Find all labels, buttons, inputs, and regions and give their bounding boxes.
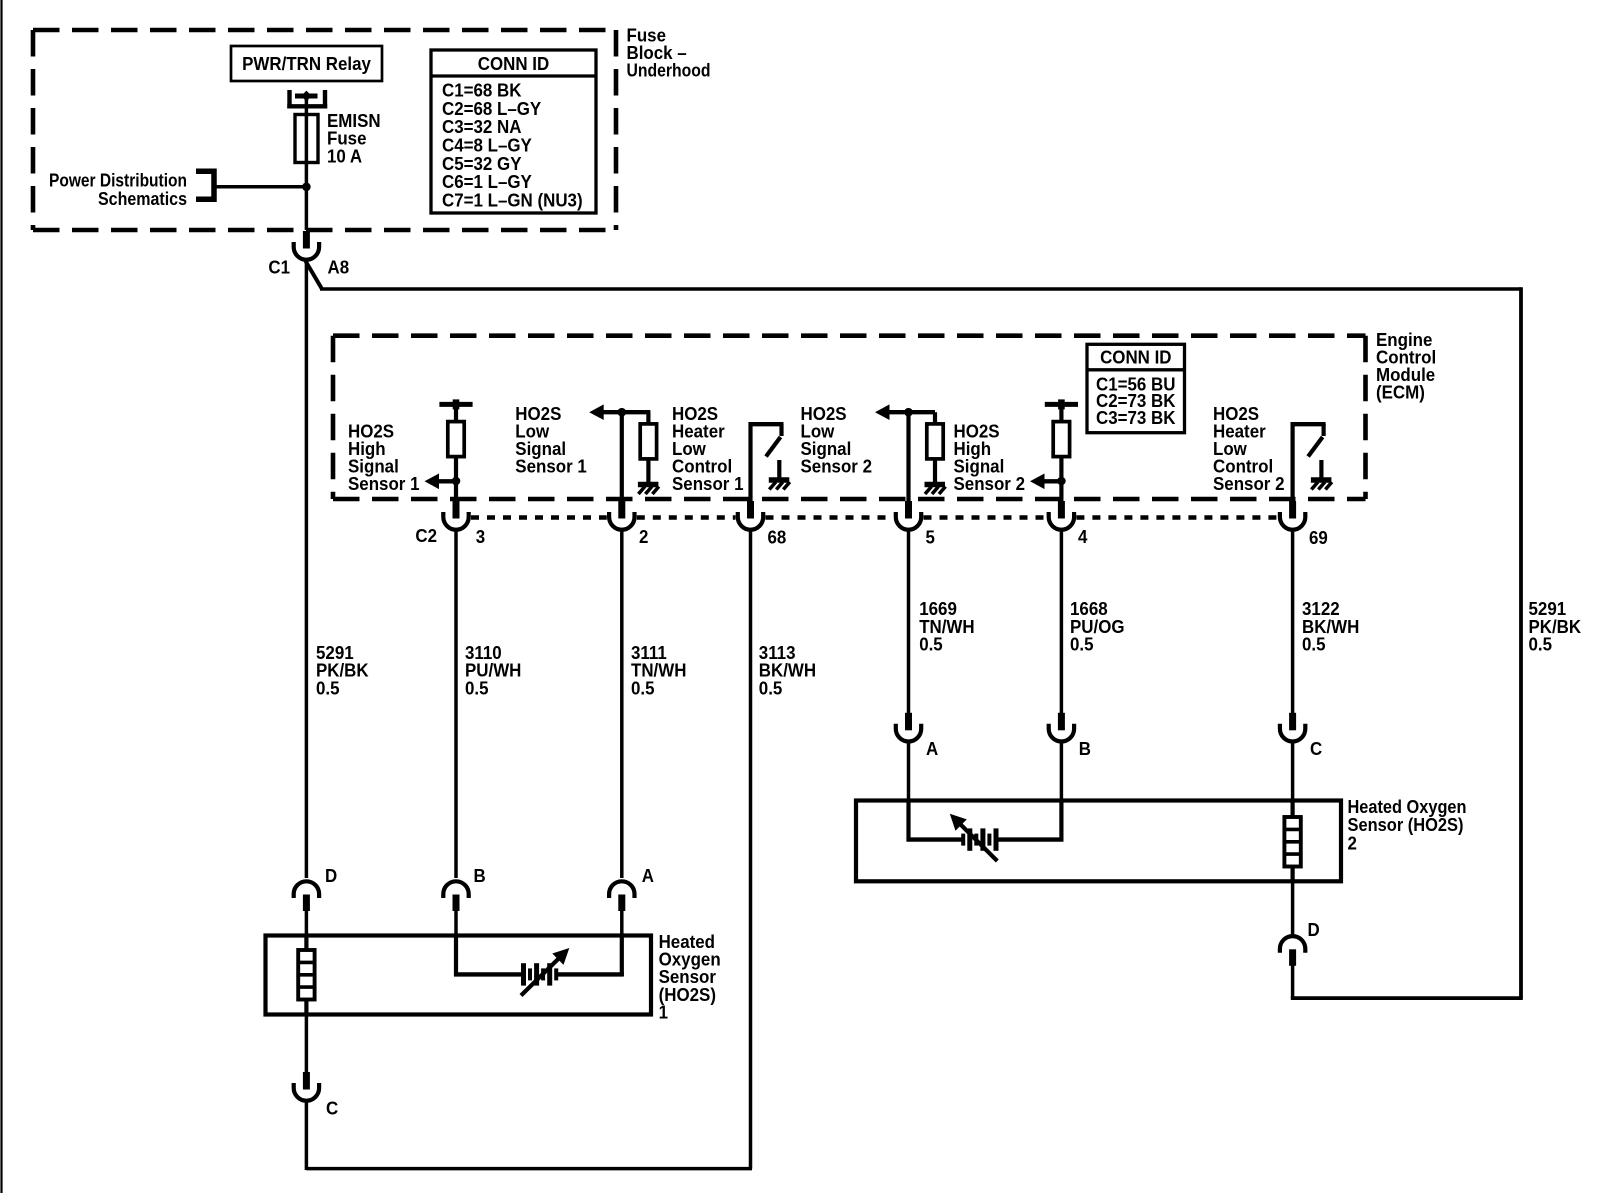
svg-text:Schematics: Schematics (98, 189, 187, 209)
relay contact symbol (287, 90, 327, 109)
arrow to HO2S Low Signal Sensor 2 label (875, 404, 935, 420)
ECM pin 4 connector (1049, 501, 1074, 530)
fuse block - underhood dashed box (33, 30, 616, 230)
sensor cell (HO2S2) (907, 802, 1064, 842)
svg-text:5: 5 (926, 527, 935, 547)
ECM pin 68 connector (738, 501, 763, 530)
internal connection T-bar (circuit 1) (439, 399, 472, 409)
ground stem (circuit 6) (1319, 460, 1323, 478)
wire corner down to resistor (circuit 4) (933, 412, 937, 424)
heater element (HO2S2) (1290, 802, 1294, 817)
ECM pin 5 connector (896, 501, 921, 530)
svg-text:C4=8 L–GY: C4=8 L–GY (442, 136, 532, 156)
svg-text:C6=1 L–GY: C6=1 L–GY (442, 172, 532, 192)
svg-text:C2: C2 (415, 526, 437, 546)
svg-text:Sensor 2: Sensor 2 (1213, 474, 1285, 494)
svg-text:10 A: 10 A (327, 146, 362, 166)
wire 3110 PU/WH (pin 3 to HO2S1 B) (454, 531, 458, 879)
wire switch to pin 68 (748, 422, 752, 503)
svg-text:Sensor 1: Sensor 1 (515, 457, 587, 477)
svg-text:0.5: 0.5 (1529, 635, 1553, 655)
wire resistor to ground (circuit 4) (933, 459, 937, 482)
heated oxygen sensor HO2S 1 box (266, 936, 652, 1015)
ground stem (circuit 3) (777, 460, 781, 478)
wire resistor to ground (circuit 2) (646, 459, 650, 482)
sensor variable arrow (HO2S1) (521, 948, 569, 996)
fuse EMISN 10A (295, 115, 318, 163)
junction node circuit 2 (618, 408, 627, 417)
wire relay to fuse (305, 96, 309, 116)
wire HO2S1 heater to pin C (305, 1015, 309, 1073)
connector pin D (HO2S2) (1280, 936, 1305, 966)
wire 1668 PU/OG (pin 4 to HO2S2 B) (1060, 531, 1064, 714)
connector pin A (HO2S1) (609, 881, 634, 911)
connector pin D (HO2S1) (294, 881, 319, 911)
wire D to 5291 right (1291, 965, 1523, 998)
junction node circuit 1 (452, 477, 461, 486)
arrow to HO2S Low Signal Sensor 1 label (589, 404, 650, 420)
arrow to HO2S High Signal Sensor 2 label (1030, 474, 1061, 490)
internal connection T-bar (circuit 5) (1045, 399, 1078, 409)
wire C into HO2S2 (1291, 742, 1295, 803)
engine control module dashed box (333, 336, 1366, 499)
resistor (HO2S low signal) (640, 424, 656, 459)
wire junction to pin 3 (454, 481, 458, 503)
svg-text:4: 4 (1078, 527, 1087, 547)
ECM pin 3 connector (443, 501, 468, 530)
svg-text:0.5: 0.5 (631, 678, 655, 698)
junction node circuit 4 (904, 408, 913, 417)
wire 3111 TN/WH (pin 2 to HO2S1 A) (620, 531, 624, 879)
svg-text:2: 2 (639, 527, 648, 547)
svg-text:D: D (1308, 920, 1320, 940)
svg-text:CONN ID: CONN ID (1100, 348, 1171, 368)
wire 5291 PK/BK left vertical (305, 260, 309, 878)
svg-text:0.5: 0.5 (759, 678, 783, 698)
wire resistor to junction (454, 457, 458, 482)
svg-text:C1: C1 (268, 258, 290, 278)
svg-text:Sensor 2: Sensor 2 (801, 457, 873, 477)
svg-text:Underhood: Underhood (627, 61, 711, 81)
arrow to HO2S High Signal Sensor 1 label (425, 474, 457, 490)
svg-text:C: C (1310, 739, 1322, 759)
connector pin A (HO2S2) (896, 713, 921, 742)
svg-text:A: A (642, 866, 654, 886)
svg-text:0.5: 0.5 (1070, 635, 1094, 655)
ECM pin 69 connector (1280, 501, 1305, 530)
svg-text:0.5: 0.5 (465, 678, 489, 698)
svg-text:0.5: 0.5 (1302, 635, 1326, 655)
connector pin B (HO2S2) (1049, 713, 1074, 742)
svg-text:Sensor 2: Sensor 2 (954, 474, 1026, 494)
svg-text:68: 68 (768, 527, 787, 547)
ground (circuit 6) (1311, 480, 1332, 490)
resistor (HO2S low signal 2) (927, 424, 943, 459)
svg-text:C3=73 BK: C3=73 BK (1096, 408, 1176, 428)
svg-text:0.5: 0.5 (316, 678, 340, 698)
wire A into HO2S2 (907, 742, 911, 803)
connector pin B (HO2S1) (443, 881, 468, 911)
svg-text:Sensor 1: Sensor 1 (672, 474, 744, 494)
svg-text:CONN ID: CONN ID (478, 54, 549, 74)
svg-text:B: B (1079, 739, 1091, 759)
power distribution bracket symbol (196, 169, 214, 203)
connector pin C (HO2S2) (1280, 713, 1305, 742)
resistor (HO2S high signal pull) (448, 422, 464, 457)
connector pin C (HO2S1) (294, 1072, 319, 1101)
driver switch (heater low control 1) (749, 424, 784, 457)
wire resistor to junction (circuit 5) (1059, 457, 1063, 482)
wire junction to pin 4 (1059, 481, 1063, 503)
wire T-bar to resistor (454, 407, 458, 422)
svg-text:Power Distribution: Power Distribution (49, 171, 187, 191)
svg-text:Sensor (HO2S): Sensor (HO2S) (1348, 815, 1464, 835)
heated oxygen sensor HO2S 2 box (856, 801, 1341, 882)
svg-text:(ECM): (ECM) (1376, 383, 1425, 403)
svg-text:PWR/TRN Relay: PWR/TRN Relay (242, 54, 371, 74)
ECM pin 2 connector (609, 501, 634, 530)
svg-text:0.5: 0.5 (919, 635, 943, 655)
wire T-bar to resistor (circuit 5) (1059, 407, 1063, 422)
ground (circuit 2) (638, 485, 659, 495)
wire 3113 BK/WH (pin 68 to HO2S1 C) (306, 531, 752, 1171)
wire junction to pin 2 (620, 412, 624, 503)
wire fuse to connector C1 (305, 163, 309, 231)
wire HO2S2 heater to pin D (1291, 881, 1295, 883)
svg-text:C7=1 L–GN (NU3): C7=1 L–GN (NU3) (442, 191, 583, 211)
svg-text:Heated Oxygen: Heated Oxygen (1348, 797, 1467, 817)
heater element (HO2S1) (304, 937, 308, 950)
svg-text:A8: A8 (328, 258, 350, 278)
svg-text:D: D (325, 866, 337, 886)
svg-text:2: 2 (1348, 833, 1357, 853)
wire B into HO2S1 (454, 910, 458, 937)
sensor variable arrow (HO2S2) (950, 814, 998, 861)
ground (circuit 4) (925, 485, 946, 495)
connector C1 pin A8 (294, 231, 319, 260)
wire 1669 TN/WH (pin 5 to HO2S2 A) (907, 531, 911, 714)
svg-text:1: 1 (659, 1003, 668, 1023)
relay PWR/TRN Relay name box (231, 46, 382, 81)
wire power distribution tap (216, 185, 306, 189)
svg-text:Sensor 1: Sensor 1 (348, 474, 420, 494)
svg-text:A: A (926, 739, 938, 759)
wire A into HO2S1 (620, 910, 624, 937)
svg-text:C5=32 GY: C5=32 GY (442, 154, 522, 174)
svg-text:69: 69 (1309, 528, 1328, 548)
resistor (HO2S high signal 2) (1053, 422, 1069, 457)
svg-text:C1=68 BK: C1=68 BK (442, 80, 522, 100)
sensor cell (HO2S1) (454, 937, 624, 976)
wire B into HO2S2 (1060, 742, 1064, 803)
svg-text:3: 3 (476, 527, 485, 547)
driver switch (heater low control 2) (1291, 424, 1326, 457)
wire junction to pin 5 (906, 412, 910, 503)
wire 3122 BK/WH (pin 69 to HO2S2 C) (1291, 531, 1295, 714)
wire D into HO2S1 (305, 910, 309, 937)
junction node circuit 5 (1057, 477, 1066, 486)
svg-text:C2=68 L–GY: C2=68 L–GY (442, 99, 541, 119)
wire switch to pin 69 (1290, 422, 1294, 503)
conn id table ECM (1087, 344, 1185, 432)
ground (circuit 3) (769, 480, 790, 490)
ECM connector face dotted line (471, 515, 1278, 520)
wire corner down to resistor (circuit 2) (646, 412, 650, 424)
svg-text:C: C (326, 1099, 338, 1119)
svg-text:B: B (474, 866, 486, 886)
svg-text:C3=32 NA: C3=32 NA (442, 117, 522, 137)
wire 5291 branch to right (A8 to right edge) (306, 261, 1522, 998)
conn id table fuse block (431, 50, 596, 213)
junction fuse output node (302, 183, 311, 192)
